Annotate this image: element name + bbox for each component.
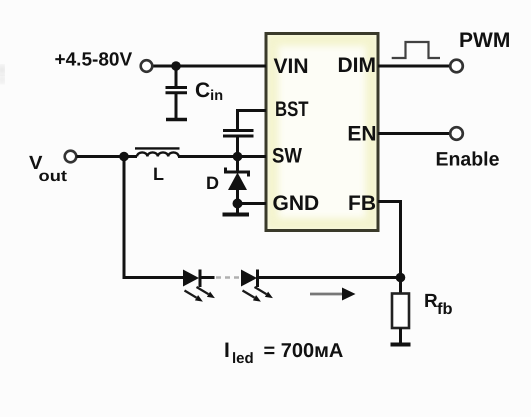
terminal Vout [65, 151, 77, 163]
node VIN junction [171, 61, 181, 71]
wire BST [238, 111, 267, 131]
capacitor Cin [166, 86, 188, 89]
svg-text:R: R [424, 291, 438, 312]
svg-text:BST: BST [275, 98, 309, 121]
node Vout junction [119, 152, 129, 162]
wire LED string right [258, 276, 401, 279]
wire LED string left [123, 276, 184, 279]
wire DIM [378, 65, 451, 68]
svg-text:I: I [224, 339, 230, 362]
svg-text:PWM: PWM [459, 29, 510, 52]
svg-text:DIM: DIM [338, 54, 377, 77]
terminal Enable [450, 127, 463, 140]
LED D1 [183, 270, 199, 287]
svg-text:FB: FB [348, 192, 376, 215]
node diode-GND junction [233, 199, 243, 209]
diode D (schottky) [236, 157, 239, 173]
wire Cin top [175, 66, 178, 87]
wire FB [378, 202, 401, 278]
wire Vout to inductor [77, 155, 138, 158]
svg-text:= 700мА: = 700мА [264, 340, 344, 362]
inductor L [135, 148, 180, 156]
LED D1 emission arrows [185, 287, 215, 302]
ground diode [223, 213, 250, 217]
LED D2 emission arrows [243, 287, 273, 302]
node FB junction [396, 273, 406, 283]
svg-text:VIN: VIN [274, 55, 309, 78]
capacitor BST [223, 129, 254, 132]
svg-text:D: D [206, 173, 219, 193]
wire BST cap to SW [236, 137, 239, 157]
svg-text:fb: fb [437, 301, 453, 318]
IC U1 (LED driver) [266, 34, 378, 231]
wire SW [178, 155, 266, 158]
PWM pulse symbol [392, 42, 440, 58]
ground Cin [166, 118, 187, 122]
LED D2 [241, 270, 257, 287]
wire Vout down [123, 157, 126, 278]
wire to ground [236, 204, 239, 214]
current direction arrow [310, 293, 343, 296]
wire GND pin [238, 202, 267, 205]
terminal +4.5-80V [141, 60, 153, 72]
svg-text:SW: SW [272, 145, 302, 168]
svg-text:Enable: Enable [436, 149, 500, 171]
svg-text:GND: GND [273, 192, 320, 215]
svg-text:led: led [232, 350, 254, 367]
wire EN [378, 132, 451, 135]
wire Cin bottom [175, 94, 178, 118]
edge artifact left [0, 66, 4, 74]
terminal PWM [450, 60, 463, 73]
node SW junction [233, 152, 243, 162]
ground Rfb [391, 343, 411, 347]
wire dashed between LEDs [216, 276, 241, 278]
svg-text:L: L [153, 164, 164, 184]
svg-text:+4.5-80V: +4.5-80V [55, 50, 133, 71]
svg-text:EN: EN [347, 123, 376, 146]
wire VIN input [153, 65, 267, 68]
svg-text:out: out [39, 168, 68, 185]
resistor Rfb [399, 278, 402, 294]
